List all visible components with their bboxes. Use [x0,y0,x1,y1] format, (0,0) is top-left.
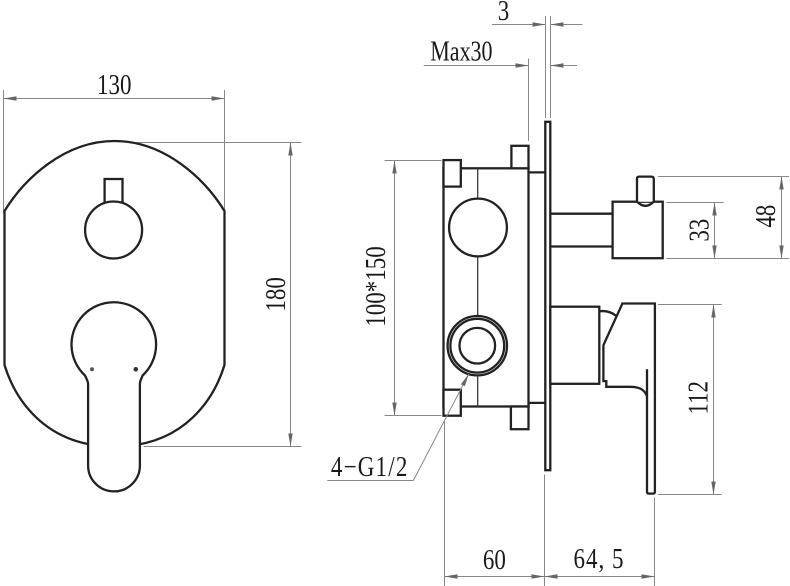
svg-text:4−G1/2: 4−G1/2 [331,451,409,483]
svg-text:60: 60 [483,544,506,576]
svg-text:100*150: 100*150 [360,246,392,326]
svg-text:48: 48 [750,205,782,228]
svg-text:130: 130 [97,69,131,101]
svg-text:112: 112 [682,381,714,415]
svg-text:64, 5: 64, 5 [574,543,625,575]
svg-text:Max30: Max30 [430,36,492,67]
svg-text:3: 3 [498,0,509,27]
svg-text:180: 180 [260,277,292,311]
svg-text:33: 33 [683,219,715,242]
